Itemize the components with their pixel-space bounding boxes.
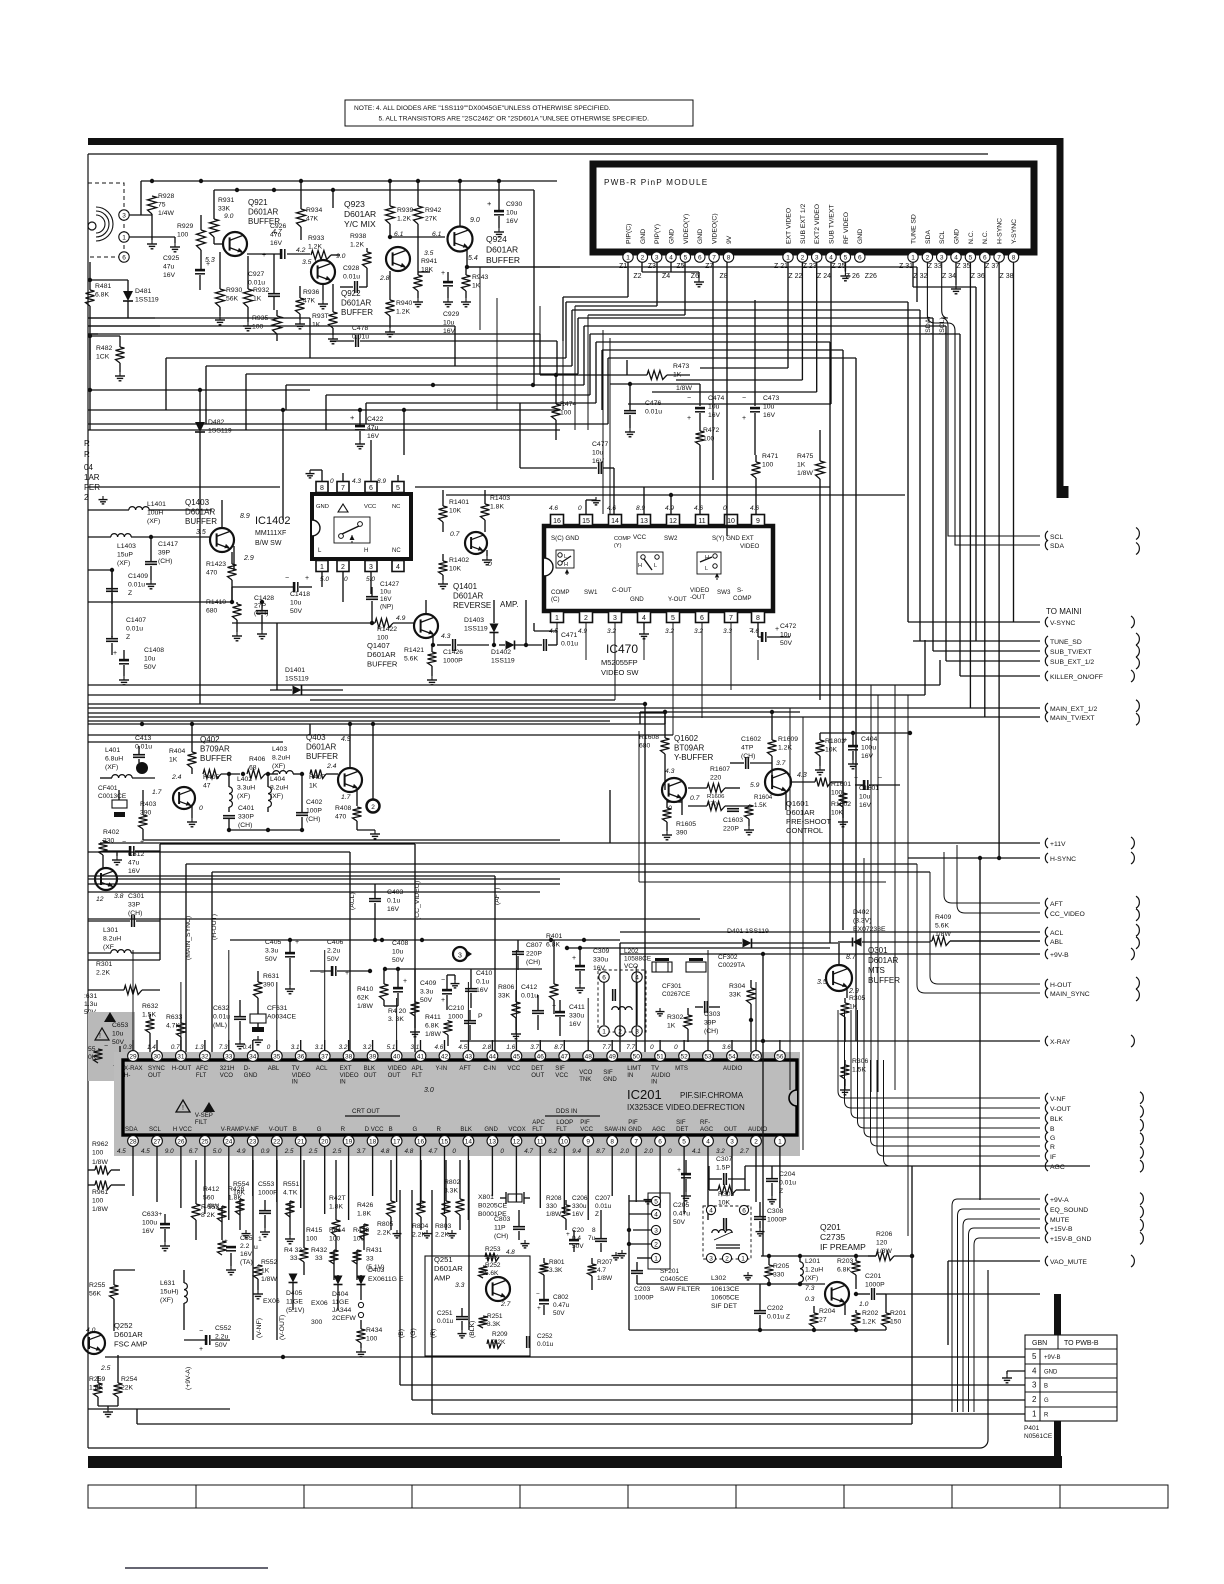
- svg-text:0.01u: 0.01u: [128, 581, 145, 588]
- svg-text:2.2K: 2.2K: [96, 969, 110, 976]
- svg-text:56: 56: [776, 1054, 784, 1061]
- svg-text:10u: 10u: [144, 655, 156, 662]
- capacitor C406: [310, 939, 372, 977]
- connector SUB_TV/EXT: [1045, 646, 1091, 656]
- svg-text:R252: R252: [485, 1262, 501, 1269]
- svg-text:VIDEO: VIDEO: [740, 543, 759, 550]
- wire right column drops: [620, 724, 786, 1056]
- wire top rail: [141, 179, 557, 215]
- svg-text:R412: R412: [203, 1186, 219, 1193]
- svg-text:AUDIO: AUDIO: [723, 1065, 743, 1072]
- Q1601 label: [786, 799, 832, 835]
- svg-text:3.2: 3.2: [716, 1148, 725, 1155]
- svg-text:−: −: [285, 575, 289, 582]
- connector TUNE_SD: [1045, 636, 1081, 646]
- svg-text:5.6K: 5.6K: [404, 655, 418, 662]
- svg-text:R933: R933: [308, 235, 324, 242]
- IC201 bottom pin labels: [125, 1108, 768, 1133]
- svg-text:38: 38: [345, 1054, 353, 1061]
- resistor R413: [353, 1227, 370, 1280]
- svg-text:BUFFER: BUFFER: [200, 754, 232, 763]
- wire emitter y267: [467, 266, 560, 268]
- svg-text:R1421: R1421: [404, 647, 424, 654]
- svg-text:FLT: FLT: [556, 1126, 567, 1133]
- resistor R803: [435, 1160, 457, 1238]
- inner thin frame: [88, 154, 988, 1448]
- capacitor C478: [330, 325, 557, 375]
- svg-text:Q252: Q252: [114, 1321, 133, 1330]
- svg-text:47K: 47K: [303, 297, 316, 304]
- capacitor C632: [213, 1000, 246, 1049]
- svg-text:NC: NC: [392, 548, 401, 554]
- svg-text:R207: R207: [597, 1259, 613, 1266]
- wire bus 11v: [100, 790, 1040, 843]
- svg-text:L201: L201: [805, 1258, 820, 1265]
- svg-text:30: 30: [153, 1054, 161, 1061]
- svg-text:C404: C404: [861, 736, 877, 743]
- resistor R553: [201, 1204, 227, 1255]
- svg-text:50V: 50V: [553, 1310, 565, 1317]
- capacitor C252: [527, 1333, 554, 1348]
- svg-text:0.01u: 0.01u: [645, 408, 662, 415]
- svg-text:3.3K: 3.3K: [487, 1321, 501, 1328]
- svg-text:C412: C412: [521, 984, 537, 991]
- svg-text:D601AR: D601AR: [185, 508, 215, 517]
- svg-text:OUT: OUT: [148, 1072, 161, 1079]
- svg-text:V-SYNC: V-SYNC: [1050, 620, 1075, 627]
- svg-text:TO PWB-B: TO PWB-B: [1064, 1340, 1099, 1347]
- svg-text:0.7: 0.7: [690, 795, 700, 802]
- svg-text:2.2K: 2.2K: [377, 1229, 391, 1236]
- svg-text:27K: 27K: [425, 215, 438, 222]
- wire bus960: [88, 844, 160, 960]
- svg-text:VCC: VCC: [580, 1126, 593, 1133]
- bottom revision table: [88, 1485, 1168, 1508]
- svg-text:AFT: AFT: [459, 1065, 471, 1072]
- capacitor C926: [247, 223, 310, 259]
- svg-text:MAIN_EXT_1/2: MAIN_EXT_1/2: [1050, 706, 1097, 713]
- Q923 label: [344, 199, 376, 229]
- svg-text:6: 6: [700, 615, 704, 622]
- svg-text:R1422: R1422: [377, 626, 397, 633]
- svg-text:4.6: 4.6: [435, 1044, 444, 1051]
- svg-text:R961: R961: [92, 1189, 108, 1196]
- svg-text:0.01u: 0.01u: [213, 1013, 230, 1020]
- svg-text:6.8K: 6.8K: [837, 1266, 851, 1273]
- svg-text:TUNE SD: TUNE SD: [910, 214, 917, 244]
- svg-text:BT09AR: BT09AR: [674, 744, 704, 753]
- svg-text:R301: R301: [96, 961, 112, 968]
- svg-text:Y-IN: Y-IN: [436, 1065, 448, 1072]
- svg-text:1/8W: 1/8W: [676, 385, 692, 392]
- wire q1602 enclosure: [639, 731, 886, 882]
- capacitor C925: [163, 255, 210, 290]
- svg-text:16V: 16V: [163, 272, 176, 279]
- svg-text:L1401: L1401: [147, 501, 166, 508]
- resistor R1607: [688, 766, 740, 793]
- capacitor C207: [595, 1195, 612, 1252]
- svg-text:10: 10: [561, 1139, 569, 1146]
- svg-text:GND: GND: [244, 1072, 258, 1079]
- L302 dashed box: [703, 1205, 751, 1262]
- svg-text:8 2K: 8 2K: [201, 1212, 215, 1219]
- svg-text:MM111XF: MM111XF: [255, 530, 286, 537]
- svg-text:+: +: [537, 1305, 541, 1312]
- svg-text:-OUT: -OUT: [690, 594, 705, 601]
- svg-text:330: 330: [773, 1271, 785, 1278]
- svg-text:C408: C408: [392, 940, 408, 947]
- svg-text:32: 32: [201, 1054, 209, 1061]
- resistor R426: [357, 1202, 373, 1250]
- capacitor C204: [766, 1166, 796, 1204]
- svg-text:1K: 1K: [667, 1022, 676, 1029]
- resistor R408: [335, 805, 380, 839]
- svg-text:1/4W: 1/4W: [158, 210, 174, 217]
- connector BLK: [1045, 1113, 1063, 1123]
- svg-text:L402: L402: [237, 776, 252, 783]
- resistor R932: [243, 256, 269, 331]
- svg-text:50V: 50V: [215, 1342, 228, 1349]
- net label 9V-A vertical: [185, 1367, 192, 1390]
- svg-text:1: 1: [1032, 1410, 1037, 1419]
- resistor R934: [297, 181, 323, 240]
- svg-text:(+9V-A): (+9V-A): [185, 1367, 192, 1390]
- svg-text:1/8W: 1/8W: [546, 1211, 562, 1218]
- svg-text:SW3: SW3: [717, 589, 731, 596]
- svg-text:PRE-SHOOT: PRE-SHOOT: [786, 817, 832, 826]
- svg-text:1: 1: [602, 1029, 606, 1036]
- SF201 label: [660, 1268, 700, 1293]
- svg-text:4.3: 4.3: [797, 772, 807, 779]
- svg-text:OUT: OUT: [388, 1072, 401, 1079]
- capacitor C404: [843, 733, 877, 769]
- transistor Q1602t: [662, 768, 700, 815]
- resistor R1605: [662, 799, 696, 840]
- svg-text:3.3u: 3.3u: [420, 988, 433, 995]
- svg-text:D601AR: D601AR: [486, 245, 518, 255]
- wire rail712 right: [640, 710, 800, 724]
- svg-text:11: 11: [698, 518, 705, 525]
- svg-text:2.4: 2.4: [326, 763, 337, 770]
- svg-text:VCC: VCC: [364, 504, 376, 510]
- svg-text:R: R: [437, 1126, 442, 1133]
- capacitor C1408: [113, 647, 164, 685]
- svg-text:C633+: C633+: [142, 1211, 162, 1218]
- resistor R207: [588, 1258, 614, 1290]
- svg-text:B0205CE: B0205CE: [478, 1202, 508, 1209]
- svg-text:14: 14: [611, 518, 619, 525]
- svg-text:CF631: CF631: [267, 1005, 288, 1012]
- svg-text:16V: 16V: [506, 218, 519, 225]
- svg-text:1/8W: 1/8W: [92, 1159, 108, 1166]
- capacitor C403: [369, 884, 403, 940]
- wire mid verticals: [88, 267, 917, 514]
- svg-text:49: 49: [609, 1054, 617, 1061]
- svg-text:D601AR: D601AR: [341, 299, 371, 308]
- wire band2 nets: [166, 358, 596, 430]
- svg-text:R93T: R93T: [312, 313, 329, 320]
- transistor Q1403: [185, 498, 254, 570]
- svg-text:C929: C929: [443, 311, 459, 318]
- resistor R961: [88, 1181, 125, 1213]
- svg-text:47u: 47u: [270, 231, 282, 238]
- connector EQ_SOUND: [1045, 1204, 1088, 1214]
- svg-text:4: 4: [396, 564, 400, 571]
- svg-text:(V-NF): (V-NF): [256, 1318, 263, 1338]
- svg-text:IF: IF: [1050, 1154, 1056, 1161]
- resonator CF302x: [686, 958, 706, 972]
- svg-text:C204: C204: [779, 1171, 795, 1178]
- svg-text:MTS: MTS: [675, 1065, 688, 1072]
- svg-text:4: 4: [642, 615, 646, 622]
- svg-text:9V: 9V: [726, 235, 733, 244]
- svg-text:SIF: SIF: [676, 1119, 686, 1126]
- svg-text:3.1: 3.1: [291, 1044, 300, 1051]
- resistor R942: [414, 181, 442, 272]
- resistor R255: [89, 1270, 135, 1331]
- svg-text:GBN: GBN: [1032, 1340, 1047, 1347]
- svg-text:4.7: 4.7: [429, 1148, 438, 1155]
- svg-text:0.01u: 0.01u: [437, 1318, 454, 1325]
- svg-text:N.C.: N.C.: [982, 230, 989, 244]
- svg-text:1/8W: 1/8W: [92, 1206, 108, 1213]
- capacitor C1601: [854, 775, 900, 809]
- svg-text:C0405CE: C0405CE: [660, 1276, 689, 1283]
- svg-text:7: 7: [634, 1139, 638, 1146]
- svg-text:4: 4: [709, 1208, 713, 1215]
- svg-text:3: 3: [369, 564, 373, 571]
- IC1402 pins bottom: [316, 561, 404, 603]
- svg-text:Z 37: Z 37: [985, 263, 999, 270]
- ground R928: [147, 240, 157, 249]
- svg-text:R472: R472: [703, 427, 719, 434]
- svg-text:R208: R208: [546, 1195, 562, 1202]
- svg-text:50: 50: [633, 1054, 641, 1061]
- svg-text:3.5: 3.5: [817, 979, 827, 986]
- svg-text:0.1u: 0.1u: [387, 897, 400, 904]
- wire rail724: [88, 710, 667, 800]
- svg-text:33: 33: [366, 1255, 374, 1262]
- wire Z35 net: [969, 262, 971, 708]
- capacitor C477: [520, 403, 614, 514]
- connector +11V: [1045, 838, 1066, 848]
- L202 vco: [598, 948, 652, 1036]
- capacitor C551: [224, 1235, 262, 1275]
- IC201 warning marks: [176, 1087, 434, 1112]
- svg-text:R409: R409: [935, 914, 951, 921]
- P401 label: [1024, 1425, 1053, 1440]
- svg-text:4.7: 4.7: [524, 1148, 533, 1155]
- svg-text:100: 100: [762, 461, 774, 468]
- svg-text:R475: R475: [797, 453, 813, 460]
- wire staircase killer: [590, 334, 1040, 676]
- resistor R939: [386, 181, 414, 239]
- svg-text:1K: 1K: [253, 295, 262, 302]
- svg-text:0.1u: 0.1u: [476, 978, 489, 985]
- svg-text:R938: R938: [350, 233, 366, 240]
- wire ic201 top pin stubs: [133, 950, 756, 1040]
- svg-text:56K: 56K: [89, 1290, 102, 1297]
- svg-text:6: 6: [742, 1208, 746, 1215]
- svg-text:100: 100: [560, 409, 572, 416]
- svg-text:C471: C471: [561, 632, 577, 639]
- svg-text:D601AR: D601AR: [434, 1264, 463, 1273]
- svg-text:CF301: CF301: [662, 983, 682, 990]
- svg-text:COMP: COMP: [551, 589, 570, 596]
- svg-text:1K: 1K: [309, 782, 318, 789]
- wire bus735: [88, 724, 310, 735]
- svg-text:1.5K: 1.5K: [142, 1011, 156, 1018]
- svg-text:(B): (B): [398, 1329, 405, 1338]
- wire bus721: [88, 720, 610, 722]
- svg-text:Z 35: Z 35: [956, 263, 970, 270]
- svg-text:3.8: 3.8: [114, 893, 124, 900]
- svg-text:u: u: [254, 1244, 258, 1251]
- IC201 pins bottom: [117, 1136, 785, 1160]
- svg-text:4.2: 4.2: [296, 247, 306, 254]
- svg-text:R42T: R42T: [329, 1195, 346, 1202]
- IC201 top pin labels: [124, 1065, 743, 1086]
- svg-text:(ML): (ML): [213, 1022, 227, 1029]
- svg-text:7: 7: [341, 485, 345, 492]
- svg-text:C413: C413: [135, 735, 151, 742]
- connector B: [1045, 1123, 1055, 1133]
- svg-text:3: 3: [655, 255, 659, 262]
- svg-text:C403: C403: [387, 889, 403, 896]
- border thick right bar lower: [1054, 1294, 1061, 1335]
- svg-text:+15V-B_GND: +15V-B_GND: [1050, 1236, 1091, 1243]
- capacitor C401: [223, 805, 254, 830]
- svg-text:50V: 50V: [572, 1243, 584, 1250]
- svg-text:39: 39: [369, 1054, 377, 1061]
- wire ic1402 row: [88, 510, 232, 602]
- svg-text:8.2uH: 8.2uH: [270, 784, 288, 791]
- capacitor C412: [521, 984, 544, 1030]
- svg-text:D1403: D1403: [464, 617, 484, 624]
- svg-text:4: 4: [654, 1212, 658, 1219]
- resistor R551: [283, 1181, 299, 1244]
- wire left bus segs: [88, 318, 310, 430]
- Q201 label: [820, 1222, 866, 1252]
- svg-text:2: 2: [641, 255, 645, 262]
- svg-text:C1409: C1409: [128, 573, 148, 580]
- svg-text:C1601: C1601: [859, 785, 879, 792]
- svg-text:6.8uH: 6.8uH: [105, 755, 123, 762]
- wire bus713: [88, 712, 665, 714]
- svg-text:RF-: RF-: [700, 1119, 710, 1126]
- resistor R406: [241, 756, 278, 779]
- connector AFT: [1045, 898, 1063, 908]
- svg-text:4.1: 4.1: [692, 1148, 701, 1155]
- svg-text:1: 1: [654, 1256, 658, 1263]
- svg-text:16V: 16V: [240, 1251, 253, 1258]
- svg-text:+: +: [206, 261, 210, 268]
- svg-text:GND: GND: [697, 229, 704, 244]
- svg-text:50V: 50V: [144, 664, 157, 671]
- svg-text:CF302: CF302: [718, 954, 738, 961]
- connector G: [1045, 1132, 1055, 1142]
- svg-text:11: 11: [537, 1139, 544, 1146]
- svg-text:C927: C927: [248, 271, 264, 278]
- svg-text:(G): (G): [410, 1328, 417, 1338]
- svg-text:1000P: 1000P: [767, 1216, 787, 1223]
- svg-text:GND: GND: [668, 229, 675, 244]
- svg-text:Q251: Q251: [434, 1255, 453, 1264]
- svg-text:G: G: [413, 1126, 418, 1133]
- svg-text:B/W SW: B/W SW: [255, 540, 282, 547]
- svg-text:−: −: [199, 1328, 203, 1335]
- svg-text:Q922: Q922: [341, 289, 361, 298]
- svg-text:13: 13: [489, 1139, 497, 1146]
- svg-text:D1401: D1401: [285, 667, 305, 674]
- svg-text:1K: 1K: [312, 321, 321, 328]
- wire vert drops below ic470: [310, 623, 758, 735]
- svg-text:(XF): (XF): [272, 763, 285, 770]
- svg-text:C309: C309: [593, 948, 609, 955]
- svg-text:(CH): (CH): [704, 1028, 718, 1035]
- svg-text:0.01u: 0.01u: [135, 743, 152, 750]
- svg-text:1: 1: [911, 255, 915, 262]
- svg-text:4.6: 4.6: [694, 505, 703, 512]
- svg-text:Z 34: Z 34: [942, 273, 956, 280]
- svg-text:4.TK: 4.TK: [283, 1189, 298, 1196]
- svg-text:4.5: 4.5: [458, 1044, 467, 1051]
- svg-text:(CH): (CH): [526, 959, 540, 966]
- resistor R402: [99, 829, 120, 868]
- svg-text:10u: 10u: [290, 599, 302, 606]
- IC201 pins top: [123, 1040, 785, 1061]
- svg-text:4.0: 4.0: [86, 1327, 96, 1334]
- capacitor C411: [552, 1000, 585, 1036]
- resistor R633: [166, 1014, 186, 1056]
- capacitor C206: [566, 1195, 588, 1252]
- PWB-R PinP MODULE box: [593, 164, 1034, 252]
- capacitor C476: [610, 382, 700, 437]
- svg-text:47: 47: [203, 782, 211, 789]
- svg-text:4: 4: [706, 1139, 710, 1146]
- svg-text:16V: 16V: [569, 1021, 582, 1028]
- svg-text:R432: R432: [311, 1247, 327, 1254]
- svg-text:2.2K: 2.2K: [412, 1231, 426, 1238]
- svg-text:1.6: 1.6: [506, 1044, 515, 1051]
- terminal 6: [119, 252, 129, 262]
- capacitor C552: [184, 1325, 231, 1353]
- svg-text:VCO: VCO: [220, 1072, 233, 1079]
- svg-text:47K: 47K: [306, 215, 319, 222]
- svg-text:4.8: 4.8: [506, 1249, 515, 1256]
- wire row830: [143, 828, 560, 840]
- svg-text:+: +: [350, 413, 355, 422]
- svg-text:3: 3: [940, 255, 944, 262]
- svg-text:R251: R251: [487, 1313, 503, 1320]
- wire rail940: [230, 938, 620, 942]
- svg-text:10K: 10K: [831, 809, 844, 816]
- svg-text:R473: R473: [673, 363, 689, 370]
- footer blue underline: [125, 1567, 268, 1569]
- resistor R401: [546, 933, 562, 1014]
- svg-text:Q1401: Q1401: [453, 582, 478, 591]
- connector V-OUT: [1045, 1103, 1070, 1113]
- svg-text:14: 14: [465, 1139, 473, 1146]
- svg-text:Z 24: Z 24: [817, 273, 831, 280]
- resistor R208: [546, 1195, 571, 1230]
- svg-text:8: 8: [320, 485, 324, 492]
- svg-text:R471: R471: [762, 453, 778, 460]
- svg-text:6.2: 6.2: [548, 1148, 557, 1155]
- svg-text:R414: R414: [329, 1227, 345, 1234]
- svg-text:9: 9: [756, 518, 760, 525]
- svg-text:C0267CE: C0267CE: [662, 991, 691, 998]
